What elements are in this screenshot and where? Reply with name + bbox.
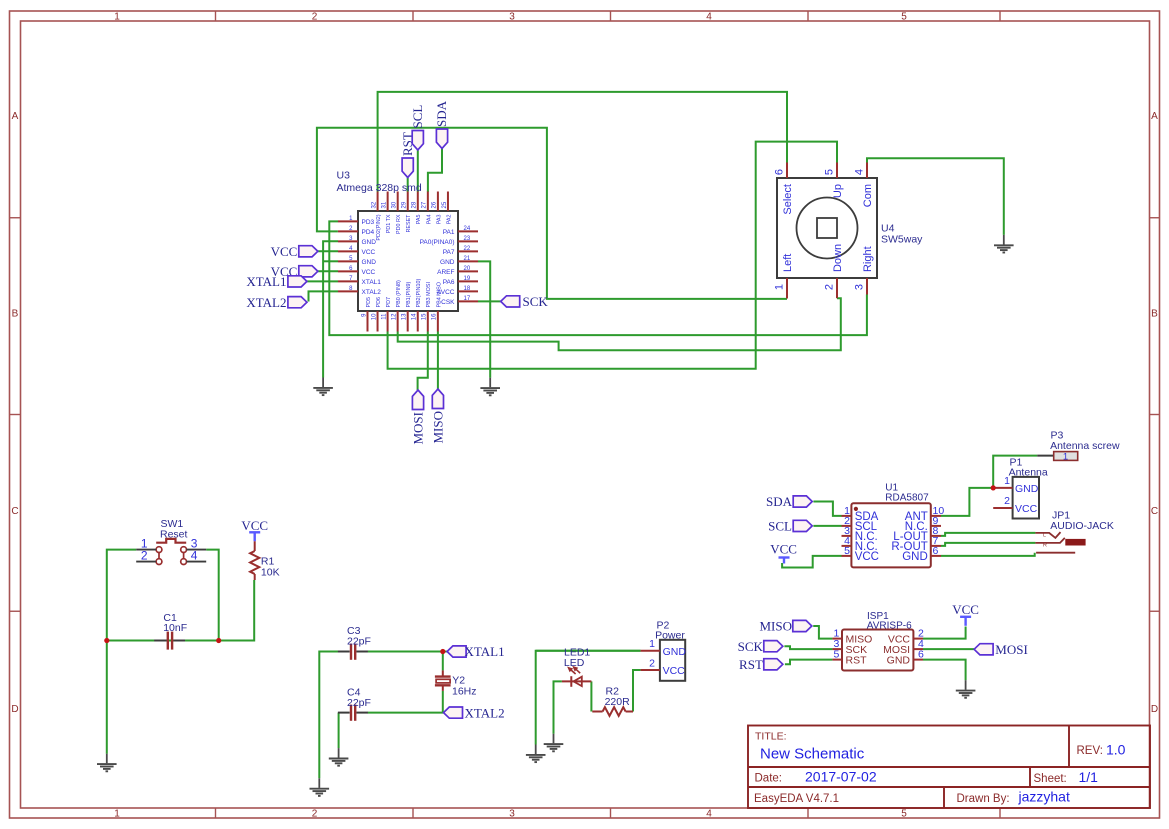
svg-text:3: 3: [854, 284, 866, 290]
svg-text:Down: Down: [832, 244, 844, 272]
svg-text:RDA5807: RDA5807: [885, 493, 929, 504]
svg-text:6: 6: [774, 169, 786, 175]
svg-text:XTAL2: XTAL2: [362, 289, 382, 296]
svg-text:4: 4: [854, 169, 866, 175]
svg-text:3: 3: [509, 809, 515, 820]
svg-text:SCK: SCK: [523, 294, 549, 309]
svg-text:22pF: 22pF: [347, 636, 371, 648]
svg-text:Reset: Reset: [160, 529, 188, 541]
svg-text:MOSI: MOSI: [410, 412, 425, 445]
svg-text:30: 30: [392, 201, 398, 208]
svg-text:6: 6: [933, 545, 939, 557]
svg-text:Antenna screw: Antenna screw: [1050, 440, 1120, 452]
svg-text:10nF: 10nF: [163, 622, 187, 634]
svg-text:PD1 TX: PD1 TX: [386, 214, 392, 233]
svg-text:XTAL1: XTAL1: [246, 274, 286, 289]
svg-text:5: 5: [901, 12, 907, 23]
svg-text:Up: Up: [832, 184, 844, 198]
svg-text:32: 32: [371, 201, 377, 208]
svg-text:6: 6: [918, 648, 924, 660]
svg-text:D: D: [1151, 704, 1158, 715]
svg-text:PA2: PA2: [446, 215, 452, 225]
svg-text:5: 5: [901, 809, 907, 820]
svg-text:Antenna: Antenna: [1009, 467, 1048, 479]
svg-text:5: 5: [834, 648, 840, 660]
svg-text:2017-07-02: 2017-07-02: [805, 769, 877, 785]
svg-text:Drawn By:: Drawn By:: [957, 793, 1010, 805]
svg-text:VCC: VCC: [271, 244, 298, 259]
svg-text:SCL: SCL: [768, 519, 792, 534]
svg-text:27: 27: [422, 201, 428, 208]
svg-text:VCC: VCC: [663, 665, 686, 677]
svg-text:18: 18: [464, 286, 471, 292]
svg-text:L: L: [1043, 532, 1046, 538]
svg-text:SDA: SDA: [766, 494, 793, 509]
svg-text:TITLE:: TITLE:: [755, 731, 787, 743]
svg-text:VCC: VCC: [362, 249, 376, 256]
svg-text:A: A: [12, 111, 19, 122]
svg-text:16: 16: [432, 313, 438, 320]
svg-text:Select: Select: [782, 184, 794, 215]
svg-text:23: 23: [464, 236, 471, 242]
svg-text:1/1: 1/1: [1079, 769, 1099, 785]
svg-text:GND: GND: [1015, 483, 1039, 495]
svg-text:24: 24: [464, 226, 471, 232]
svg-text:SCL: SCL: [410, 105, 425, 129]
svg-text:PD2(PIN2): PD2(PIN2): [376, 214, 382, 240]
svg-text:XTAL2: XTAL2: [465, 705, 505, 720]
svg-text:C: C: [11, 506, 18, 517]
svg-text:4: 4: [706, 809, 712, 820]
svg-text:1: 1: [774, 284, 786, 290]
svg-text:PB3 MOSI: PB3 MOSI: [426, 282, 432, 307]
svg-text:PD3: PD3: [362, 219, 375, 226]
svg-text:EasyEDA V4.7.1: EasyEDA V4.7.1: [754, 793, 839, 805]
svg-text:2: 2: [824, 284, 836, 290]
svg-text:U3: U3: [337, 170, 351, 182]
svg-text:New Schematic: New Schematic: [760, 746, 865, 763]
svg-text:MISO: MISO: [759, 619, 792, 634]
svg-text:PA5: PA5: [416, 215, 422, 225]
svg-text:22: 22: [464, 246, 471, 252]
svg-text:jazzyhat: jazzyhat: [1018, 789, 1070, 805]
svg-text:PB2(PIN10): PB2(PIN10): [416, 279, 422, 308]
svg-text:31: 31: [381, 201, 387, 208]
svg-text:VCC: VCC: [362, 269, 376, 276]
svg-text:GND: GND: [440, 259, 455, 266]
svg-text:VCC: VCC: [770, 542, 797, 557]
svg-text:PD0 RX: PD0 RX: [396, 214, 402, 234]
svg-text:RST: RST: [846, 654, 868, 666]
svg-text:Com: Com: [862, 184, 874, 207]
svg-text:11: 11: [381, 313, 387, 320]
svg-text:GND: GND: [887, 654, 911, 666]
svg-text:2: 2: [312, 12, 318, 23]
svg-text:GND: GND: [663, 646, 687, 658]
svg-text:PD6: PD6: [376, 297, 382, 308]
svg-text:AUDIO-JACK: AUDIO-JACK: [1050, 520, 1114, 532]
svg-text:XTAL1: XTAL1: [465, 644, 505, 659]
svg-text:B: B: [12, 309, 19, 320]
svg-text:PB1(PIN9): PB1(PIN9): [406, 282, 412, 308]
svg-text:PD5: PD5: [366, 297, 372, 308]
svg-text:25: 25: [442, 201, 448, 208]
svg-text:VCC: VCC: [952, 602, 979, 617]
svg-text:GND: GND: [362, 239, 377, 246]
svg-text:PB0 (PIN8): PB0 (PIN8): [396, 280, 402, 307]
svg-text:R: R: [1043, 543, 1047, 549]
svg-text:29: 29: [402, 201, 408, 208]
svg-text:C: C: [1151, 506, 1158, 517]
svg-text:CSK: CSK: [441, 299, 455, 306]
svg-text:Atmega 328p smd: Atmega 328p smd: [337, 182, 422, 194]
svg-text:VCC: VCC: [241, 518, 268, 533]
svg-text:1: 1: [1063, 451, 1068, 462]
svg-text:A: A: [1151, 111, 1158, 122]
svg-text:12: 12: [391, 313, 397, 320]
svg-text:PB4 MISO: PB4 MISO: [436, 282, 442, 307]
svg-text:21: 21: [464, 256, 471, 262]
svg-text:1: 1: [114, 809, 120, 820]
svg-text:2: 2: [312, 809, 318, 820]
svg-text:17: 17: [464, 296, 471, 302]
svg-text:SDA: SDA: [434, 100, 449, 127]
svg-text:22pF: 22pF: [347, 697, 371, 709]
svg-text:LED: LED: [564, 657, 585, 669]
svg-text:26: 26: [432, 201, 438, 208]
svg-text:AVRISP-6: AVRISP-6: [867, 621, 912, 632]
svg-text:2: 2: [141, 549, 148, 563]
svg-text:XTAL2: XTAL2: [246, 295, 286, 310]
svg-text:1.0: 1.0: [1106, 742, 1126, 758]
svg-text:Power: Power: [655, 630, 685, 642]
svg-text:Date:: Date:: [755, 773, 783, 785]
svg-text:REV:: REV:: [1077, 745, 1103, 757]
svg-text:3: 3: [509, 12, 515, 23]
svg-text:MOSI: MOSI: [995, 642, 1028, 657]
svg-text:2: 2: [1004, 495, 1010, 507]
svg-text:Right: Right: [862, 246, 874, 272]
svg-text:PA7: PA7: [443, 249, 455, 256]
svg-text:15: 15: [422, 313, 428, 320]
svg-text:10: 10: [371, 313, 377, 320]
svg-text:SCK: SCK: [738, 639, 764, 654]
svg-text:PD4: PD4: [362, 229, 375, 236]
svg-text:16Hz: 16Hz: [452, 685, 477, 697]
svg-text:SW5way: SW5way: [881, 234, 923, 246]
svg-text:19: 19: [464, 276, 471, 282]
svg-text:RESET: RESET: [406, 214, 412, 233]
svg-text:2: 2: [649, 658, 655, 670]
svg-text:14: 14: [412, 313, 418, 320]
svg-text:PA4: PA4: [426, 215, 432, 225]
svg-text:PA0(PINA0): PA0(PINA0): [420, 239, 455, 246]
svg-text:220R: 220R: [605, 696, 631, 708]
svg-text:PA6: PA6: [443, 279, 455, 286]
svg-text:XTAL1: XTAL1: [362, 279, 382, 286]
svg-text:GND: GND: [362, 259, 377, 266]
svg-text:Left: Left: [782, 254, 794, 272]
svg-text:13: 13: [402, 313, 408, 320]
svg-text:GND: GND: [902, 551, 928, 563]
svg-text:B: B: [1151, 309, 1158, 320]
svg-text:PA3: PA3: [436, 215, 442, 225]
svg-text:VCC: VCC: [855, 551, 879, 563]
svg-text:VCC: VCC: [1015, 503, 1038, 515]
svg-text:4: 4: [191, 549, 198, 563]
svg-text:D: D: [11, 704, 18, 715]
svg-text:MISO: MISO: [430, 411, 445, 444]
svg-text:28: 28: [412, 201, 418, 208]
svg-text:PD7: PD7: [386, 297, 392, 308]
svg-text:AREF: AREF: [437, 269, 454, 276]
svg-text:5: 5: [824, 169, 836, 175]
svg-text:20: 20: [464, 266, 471, 272]
svg-text:Sheet:: Sheet:: [1034, 773, 1067, 785]
svg-text:1: 1: [114, 12, 120, 23]
svg-text:RST: RST: [739, 657, 763, 672]
svg-text:5: 5: [844, 545, 850, 557]
svg-text:4: 4: [706, 12, 712, 23]
svg-text:10K: 10K: [261, 567, 280, 579]
svg-text:PA1: PA1: [443, 229, 455, 236]
